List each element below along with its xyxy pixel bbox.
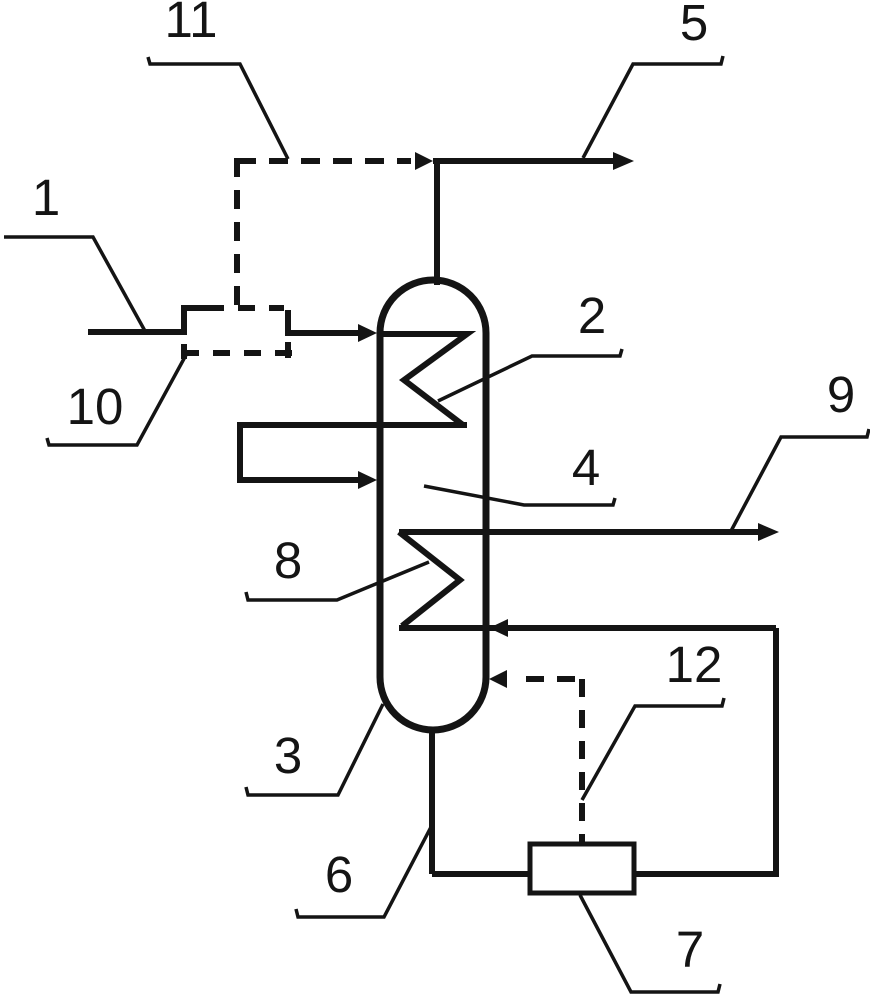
wire: dashed stream 11 horizontal [237,158,411,164]
arrowhead stream 9 [758,523,779,541]
leader line 9 [731,429,869,531]
wire: feed line 1 [88,308,208,332]
leader line 4 [424,486,615,505]
arrowhead stream 11 [415,152,433,170]
svg-text:11: 11 [165,0,218,48]
wire: left U pipe re-entry [240,422,360,480]
svg-text:10: 10 [67,378,124,435]
svg-text:9: 9 [827,366,855,423]
arrowhead stream 5 [613,152,634,170]
wire: bottoms pipe 6 [429,729,435,874]
svg-text:12: 12 [666,636,723,693]
wire: bottom loop left segment [432,871,530,877]
leader line 7 [580,895,720,992]
svg-text:5: 5 [680,0,708,51]
leader line 10 [47,355,186,445]
arrowhead return into column [489,619,508,637]
coil 2 (upper heat exchanger zigzag) [380,334,467,425]
wire: reboiler return line [399,625,776,631]
wire: dashed stream 12 horizontal [526,676,582,682]
leader line 2 [438,349,622,401]
reboiler box 7 [530,844,634,893]
control box 10 (dashed) [182,308,292,359]
leader line 3 [246,704,383,795]
svg-text:1: 1 [32,169,60,226]
arrowhead feed into column [358,324,377,342]
wire: stream 5 line [433,158,613,164]
arrowhead stream 12 [489,670,507,688]
wire: overhead pipe from column top [434,159,440,285]
svg-text:7: 7 [676,921,704,978]
coil 8 (lower heat exchanger zigzag) [399,532,460,626]
column vessel 4 [380,280,486,730]
svg-text:6: 6 [325,846,353,903]
wire: coil 2 bottom line out of column [240,422,467,428]
leader line 11 [148,57,288,159]
leader line 1 [4,237,145,331]
svg-text:4: 4 [572,439,600,496]
leader line 6 [296,827,431,917]
svg-text:8: 8 [274,532,302,589]
wire: right loop vertical [773,628,779,874]
wire: stream 9 draw-off line [399,529,760,535]
arrowhead re-entry [358,471,377,489]
leader line 12 [582,698,724,800]
wire: bottom loop right segment [634,871,779,877]
wire: feed line right of box [288,310,360,333]
svg-text:2: 2 [578,287,606,344]
leader line 5 [583,56,723,158]
leader line 8 [246,562,429,600]
svg-text:3: 3 [274,727,302,784]
wire: dashed stream 11 vertical [234,158,240,305]
wire: dashed stream 12 vertical [579,679,585,844]
